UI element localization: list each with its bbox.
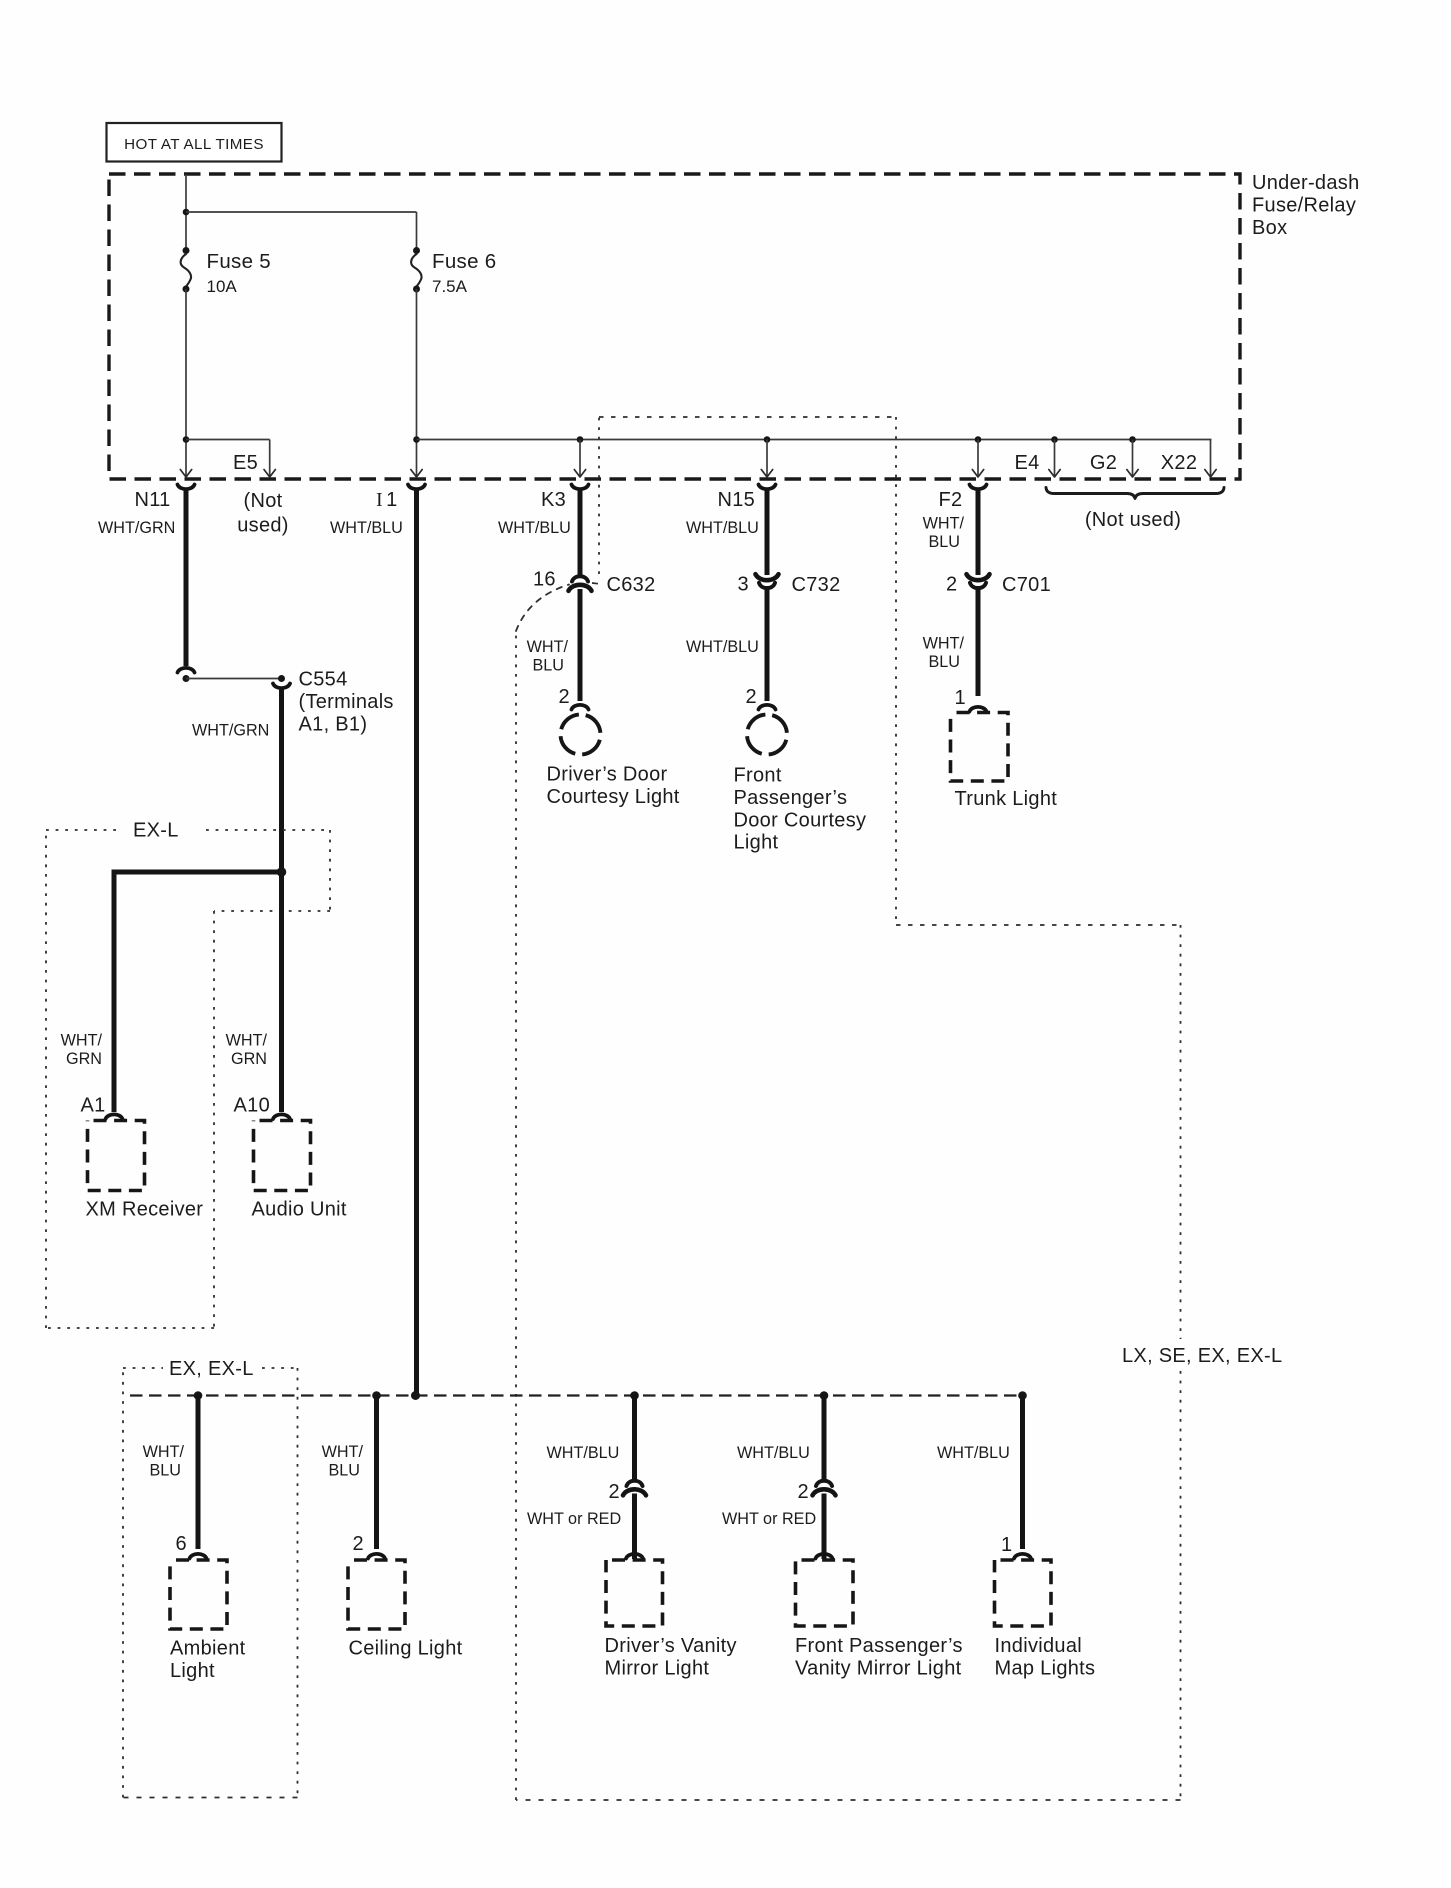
wire ceiling WHT/BLU (thick) bbox=[374, 1396, 379, 1550]
connector I1 cup bbox=[408, 485, 425, 490]
wire: drop to G2 (not used) bbox=[1132, 440, 1134, 477]
wire F2 WHT/BLU lower (thick) bbox=[976, 589, 981, 697]
svg-text:WHT/BLU: WHT/BLU bbox=[322, 1443, 364, 1480]
svg-text:WHT/GRN: WHT/GRN bbox=[61, 1032, 103, 1069]
fuse F6 terminal top bbox=[413, 247, 420, 254]
fork into passenger vanity light bbox=[816, 1554, 833, 1559]
svg-text:N11: N11 bbox=[135, 489, 171, 511]
wire: drop to E4 (not used) bbox=[1054, 440, 1056, 477]
brace under E4 G2 X22 bbox=[1046, 488, 1224, 499]
svg-text:7.5A: 7.5A bbox=[432, 277, 468, 296]
svg-text:2: 2 bbox=[353, 1533, 364, 1555]
connector N11 cup bbox=[178, 485, 195, 490]
node: junction feed split bbox=[183, 209, 190, 216]
svg-text:WHT/GRN: WHT/GRN bbox=[226, 1032, 268, 1069]
svg-text:XM Receiver: XM Receiver bbox=[86, 1199, 204, 1221]
LX SE EX EX-L model region (dotted boundary) bbox=[599, 416, 896, 418]
svg-text:C701: C701 bbox=[1002, 574, 1051, 596]
node: bus tap G2 bbox=[1129, 436, 1136, 443]
svg-text:WHT/BLU: WHT/BLU bbox=[937, 1444, 1010, 1462]
svg-text:1: 1 bbox=[955, 687, 966, 709]
fork into map lights bbox=[1014, 1554, 1031, 1559]
arrow into I1 bbox=[411, 470, 422, 478]
fuse F5 terminal bottom bbox=[183, 286, 190, 293]
wire: fuse 6 drop bbox=[416, 212, 418, 251]
wire: branch to E5 connector bbox=[186, 439, 270, 441]
svg-text:16: 16 bbox=[533, 569, 556, 591]
svg-text:6: 6 bbox=[176, 1533, 187, 1555]
wire I1 WHT/BLU long drop (thick) bbox=[414, 489, 419, 1393]
wire N11 WHT/GRN (thick) bbox=[184, 489, 189, 666]
node: bus tap F2 bbox=[975, 436, 982, 443]
under-dash fuse/relay box (dashed outline) bbox=[109, 174, 1240, 479]
arrow into X22 bbox=[1205, 470, 1216, 478]
svg-text:WHT or RED: WHT or RED bbox=[527, 1510, 621, 1528]
wire: feed from top edge to fuse 5 bbox=[185, 174, 187, 251]
svg-text:WHT/BLU: WHT/BLU bbox=[498, 519, 571, 537]
svg-text:X22: X22 bbox=[1161, 452, 1198, 474]
svg-text:I1: I1 bbox=[376, 489, 397, 511]
svg-text:K3: K3 bbox=[541, 489, 566, 511]
connector C632 (double chevron up) bbox=[572, 576, 588, 581]
node: bus tap N15 bbox=[764, 436, 771, 443]
svg-text:2: 2 bbox=[559, 686, 570, 708]
svg-text:3: 3 bbox=[738, 574, 749, 596]
svg-text:A1: A1 bbox=[81, 1095, 106, 1117]
node: driver vanity tap bbox=[630, 1391, 639, 1400]
ambient light box (dashed) bbox=[170, 1560, 227, 1629]
EX-L model region (dotted boundary) bbox=[46, 829, 119, 831]
svg-text:G2: G2 bbox=[1090, 452, 1117, 474]
wire N15 WHT/BLU upper (thick) bbox=[765, 489, 770, 575]
svg-text:1: 1 bbox=[1001, 1534, 1012, 1556]
fuse F5 element (squiggle) bbox=[181, 254, 191, 287]
svg-text:WHT/BLU: WHT/BLU bbox=[527, 638, 569, 675]
svg-text:used): used) bbox=[237, 515, 289, 537]
svg-text:WHT/BLU: WHT/BLU bbox=[923, 515, 965, 552]
svg-text:E5: E5 bbox=[233, 452, 258, 474]
XM receiver box (dashed) bbox=[88, 1121, 145, 1191]
node: C554 dot bbox=[278, 675, 285, 682]
fork into ambient light bbox=[190, 1554, 207, 1559]
fork into audio unit bbox=[273, 1114, 290, 1119]
power source label box: HOT AT ALL TIMES bbox=[107, 123, 282, 162]
svg-text:E4: E4 bbox=[1014, 452, 1039, 474]
fuse F5 terminal top bbox=[183, 247, 190, 254]
wire N15 WHT/BLU lower (thick) bbox=[765, 589, 770, 702]
passenger vanity mirror light box (dashed) bbox=[796, 1560, 854, 1626]
connector C732 (double chevron down) bbox=[756, 574, 779, 580]
inline connector (driver vanity, chevrons up) bbox=[627, 1481, 643, 1486]
driver vanity mirror light box (dashed) bbox=[606, 1560, 663, 1626]
svg-text:WHT/BLU: WHT/BLU bbox=[686, 519, 759, 537]
link dash 16 to C632 bbox=[592, 583, 603, 584]
svg-text:WHT or RED: WHT or RED bbox=[722, 1510, 816, 1528]
svg-text:Audio Unit: Audio Unit bbox=[252, 1199, 347, 1221]
EX EX-L model region (dotted box) bbox=[123, 1367, 163, 1369]
fork into XM receiver bbox=[106, 1114, 123, 1119]
svg-text:Driver’s DoorCourtesy Light: Driver’s DoorCourtesy Light bbox=[547, 764, 680, 808]
fork into passenger door courtesy light bbox=[759, 705, 776, 710]
svg-text:WHT/BLU: WHT/BLU bbox=[686, 638, 759, 656]
wire driver vanity WHT/BLU upper (thick) bbox=[632, 1396, 637, 1481]
arrow into E4 bbox=[1049, 470, 1060, 478]
wire: drop to F2 bbox=[977, 440, 979, 477]
svg-text:2: 2 bbox=[798, 1481, 809, 1503]
node: branch to E5 bbox=[183, 436, 190, 443]
node: map lights tap bbox=[1018, 1391, 1027, 1400]
svg-text:C632: C632 bbox=[607, 574, 656, 596]
fork into driver vanity light bbox=[626, 1554, 643, 1559]
wire passenger vanity WHT or RED lower (thick) bbox=[822, 1494, 827, 1560]
node: I1 wire terminates on feed bus bbox=[411, 1391, 420, 1400]
wire: thick branch to XM receiver bbox=[114, 872, 282, 1112]
wire C554 WHT/GRN down (thick) bbox=[279, 688, 284, 872]
wire driver vanity WHT or RED lower (thick) bbox=[632, 1494, 637, 1560]
fuse F6 terminal bottom bbox=[413, 286, 420, 293]
wire: drop to N15 bbox=[766, 440, 768, 477]
node: N11 to C554 link dot bbox=[183, 675, 190, 682]
individual map lights box (dashed) bbox=[995, 1560, 1052, 1626]
svg-text:WHT/BLU: WHT/BLU bbox=[923, 635, 965, 672]
fuse F6 element (squiggle) bbox=[411, 254, 421, 287]
wire: fuse 6 output down to I1 exit bbox=[416, 289, 418, 476]
arrow into F2 bbox=[972, 470, 983, 478]
svg-text:C732: C732 bbox=[792, 574, 841, 596]
wire: feed bus to right connectors bbox=[417, 439, 1212, 441]
wire: link N11 to C554 bbox=[186, 678, 282, 680]
svg-text:Ceiling Light: Ceiling Light bbox=[349, 1638, 463, 1660]
svg-text:WHT/GRN: WHT/GRN bbox=[98, 519, 175, 537]
svg-text:Fuse 6: Fuse 6 bbox=[432, 250, 496, 273]
node: bus tap K3 bbox=[577, 436, 584, 443]
node: bus tap at I1 bbox=[413, 436, 420, 443]
svg-text:WHT/BLU: WHT/BLU bbox=[737, 1444, 810, 1462]
arrow into G2 bbox=[1127, 470, 1138, 478]
svg-text:WHT/BLU: WHT/BLU bbox=[547, 1444, 620, 1462]
svg-text:2: 2 bbox=[609, 1481, 620, 1503]
node: ambient light tap bbox=[194, 1391, 203, 1400]
arrow into K3 bbox=[574, 470, 585, 478]
svg-text:Fuse 5: Fuse 5 bbox=[207, 250, 271, 273]
connector K3 cup bbox=[572, 485, 589, 490]
svg-text:IndividualMap Lights: IndividualMap Lights bbox=[995, 1635, 1096, 1679]
node: ceiling light tap bbox=[372, 1391, 381, 1400]
wire K3 WHT/BLU lower (thick) bbox=[578, 589, 583, 701]
fork into ceiling light bbox=[368, 1554, 385, 1559]
svg-text:(Not: (Not bbox=[244, 490, 283, 512]
arrow into E5 bbox=[264, 470, 275, 478]
connector C701 (double chevron down) bbox=[967, 574, 990, 580]
svg-text:EX, EX-L: EX, EX-L bbox=[169, 1358, 254, 1380]
svg-text:Trunk Light: Trunk Light bbox=[955, 788, 1058, 810]
front passenger door courtesy light (dashed circle) bbox=[743, 710, 792, 759]
svg-text:A10: A10 bbox=[234, 1095, 271, 1117]
fork into trunk light bbox=[970, 707, 987, 712]
wire: horizontal feed to fuse 6 bbox=[186, 211, 417, 213]
svg-text:HOT AT ALL TIMES: HOT AT ALL TIMES bbox=[124, 136, 264, 153]
wire: fuse 5 output down to N11 exit bbox=[185, 289, 187, 476]
connector N15 cup bbox=[759, 485, 776, 490]
ceiling light box (dashed) bbox=[348, 1560, 405, 1629]
svg-text:N15: N15 bbox=[718, 489, 756, 511]
wire: courtesy feed bus (dashed) bbox=[130, 1394, 1023, 1396]
wire: drop to K3 bbox=[579, 440, 581, 477]
wire K3 WHT/BLU upper (thick) bbox=[578, 489, 583, 576]
svg-text:EX-L: EX-L bbox=[133, 820, 179, 842]
svg-text:2: 2 bbox=[746, 686, 757, 708]
svg-text:2: 2 bbox=[946, 574, 957, 596]
wire passenger vanity WHT/BLU upper (thick) bbox=[822, 1396, 827, 1481]
wire ambient WHT/BLU (thick) bbox=[196, 1396, 201, 1550]
fork into driver door courtesy light bbox=[572, 705, 589, 710]
wire F2 WHT/BLU upper (thick) bbox=[976, 489, 981, 575]
wire map lights WHT/BLU (thick) bbox=[1020, 1396, 1025, 1550]
svg-text:WHT/BLU: WHT/BLU bbox=[330, 519, 403, 537]
svg-text:LX, SE, EX, EX-L: LX, SE, EX, EX-L bbox=[1122, 1345, 1282, 1367]
inline connector (passenger vanity, chevrons up) bbox=[816, 1481, 832, 1486]
wire: audio unit drop (thick) bbox=[279, 872, 284, 1112]
svg-text:10A: 10A bbox=[207, 277, 238, 296]
arrow into N15 bbox=[761, 470, 772, 478]
connector F2 cup bbox=[970, 485, 987, 490]
trunk light box (dashed) bbox=[951, 713, 1009, 782]
wire: drop to X22 (not used) bbox=[1210, 440, 1212, 477]
svg-text:(Not used): (Not used) bbox=[1085, 509, 1181, 531]
svg-text:WHT/BLU: WHT/BLU bbox=[143, 1443, 185, 1480]
Audio unit box (dashed) bbox=[254, 1121, 311, 1191]
node: passenger vanity tap bbox=[820, 1391, 829, 1400]
node: EX-L split junction bbox=[277, 867, 287, 877]
node: bus tap E4 bbox=[1051, 436, 1058, 443]
svg-text:F2: F2 bbox=[939, 489, 963, 511]
connector C554 cup bbox=[273, 684, 290, 689]
connector fork at N11 wire end bbox=[178, 668, 195, 673]
arrow into N11 bbox=[180, 470, 191, 478]
driver door courtesy light (dashed circle) bbox=[556, 710, 605, 759]
svg-text:Front Passenger’sVanity Mirror: Front Passenger’sVanity Mirror Light bbox=[795, 1635, 963, 1679]
svg-text:WHT/GRN: WHT/GRN bbox=[192, 722, 269, 740]
